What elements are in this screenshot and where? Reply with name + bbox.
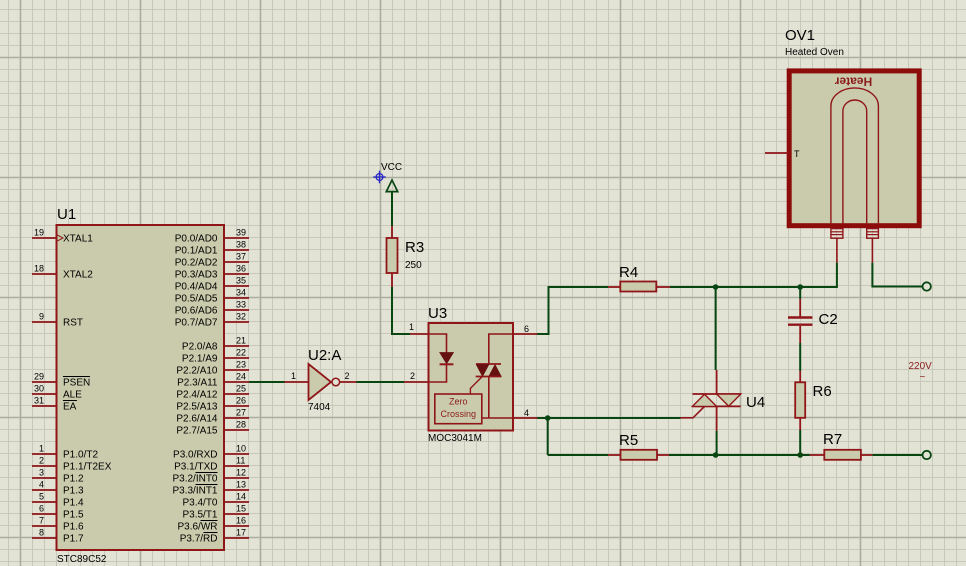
U1 pin 26 P2.5/A13 [176,396,249,413]
svg-text:9: 9 [39,312,44,322]
resistor R3 [387,226,398,287]
U3 pin 6 stub [513,324,537,334]
resistor R5 [608,450,669,460]
svg-text:T: T [794,149,800,159]
svg-text:P1.4: P1.4 [63,498,84,509]
svg-text:P0.6/AD6: P0.6/AD6 [175,306,218,317]
resistor R4 [608,282,670,292]
heater terminal left [831,229,843,263]
junction node gate [545,415,551,421]
svg-text:3: 3 [39,468,44,478]
R4 reference label [619,264,638,281]
svg-text:Heater: Heater [834,75,872,89]
U1 pin 24 P2.3/A11 [177,372,249,389]
svg-text:4: 4 [39,480,44,490]
svg-text:PSEN: PSEN [63,378,90,389]
svg-text:P2.2/A10: P2.2/A10 [176,366,218,377]
U3 reference label [428,305,447,322]
U3 pin 1 stub [409,322,429,334]
svg-text:1: 1 [291,371,296,381]
svg-text:C2: C2 [819,311,838,328]
svg-text:7: 7 [39,516,44,526]
svg-text:EA: EA [63,402,77,413]
svg-text:P3.1/TXD: P3.1/TXD [174,462,217,473]
svg-text:Zero: Zero [449,397,468,407]
svg-text:12: 12 [236,468,246,478]
svg-text:25: 25 [236,384,246,394]
svg-text:4: 4 [524,408,529,418]
junction node C2 top [797,284,803,290]
wire R4 node to U4 [715,287,717,370]
wire U4 to bottom row [716,431,718,455]
svg-text:U3: U3 [428,305,447,322]
svg-text:P3.2/INT0: P3.2/INT0 [172,474,217,485]
OV1 reference label [785,27,815,44]
svg-text:11: 11 [236,456,245,466]
U2:A value label 7404 [308,402,331,413]
U1 pin 12 P3.2/INT0 [172,468,249,485]
U1 pin 32 P0.7/AD7 [175,312,249,329]
U1 pin 17 P3.7/RD [180,528,249,545]
wire R7 to terminal [872,454,922,456]
svg-text:220V: 220V [909,361,933,372]
wire gate node down to R5 row [547,418,549,455]
U1 value label STC89C52 [57,554,107,565]
op-amp/inverter U2:A 7404 [285,364,357,400]
U1 pin 1 P1.0/T2 [32,444,98,461]
R7 reference label [823,431,842,448]
svg-text:39: 39 [236,228,246,238]
U1 pin 38 P0.1/AD1 [175,240,249,257]
svg-text:P0.2/AD2: P0.2/AD2 [175,258,218,269]
U1 pin 2 P1.1/T2EX [32,456,112,473]
svg-text:24: 24 [236,372,246,382]
svg-text:P3.4/T0: P3.4/T0 [182,498,217,509]
U3 value label MOC3041M [428,433,482,444]
heated oven OV1 body [789,71,919,226]
C2 reference label [819,311,838,328]
svg-text:7404: 7404 [308,402,331,413]
svg-text:P0.5/AD5: P0.5/AD5 [175,294,218,305]
U1 pin 28 P2.7/A15 [176,420,249,437]
svg-text:P3.3/INT1: P3.3/INT1 [172,486,217,497]
R5 reference label [619,432,638,449]
capacitor C2 [788,299,812,343]
U1 pin 7 P1.6 [32,516,84,533]
svg-text:RST: RST [63,318,83,329]
wire U3 pin 4 to gate node [537,417,548,419]
U1 pin 22 P2.1/A9 [182,348,249,365]
svg-text:STC89C52: STC89C52 [57,554,107,565]
U1 pin 8 P1.7 [32,528,84,545]
wire U1 P2.3/A11 to U2:A input [249,381,285,383]
resistor R7 [810,450,873,460]
svg-text:36: 36 [236,264,246,274]
svg-text:37: 37 [236,252,246,262]
terminal top right [923,282,931,290]
U1 pin 4 P1.3 [32,480,84,497]
U1 pin 18 XTAL2 [32,264,93,281]
svg-text:ALE: ALE [63,390,82,401]
svg-text:P2.3/A11: P2.3/A11 [177,378,218,389]
R6 reference label [813,383,832,400]
U1 pin 3 P1.2 [32,468,84,485]
svg-text:P2.1/A9: P2.1/A9 [182,354,218,365]
svg-text:P2.4/A12: P2.4/A12 [176,390,218,401]
svg-text:XTAL2: XTAL2 [63,270,93,281]
resistor R6 [795,371,805,430]
svg-text:28: 28 [236,420,246,430]
svg-text:2: 2 [39,456,44,466]
junction node U4 bottom [713,452,719,458]
svg-text:30: 30 [34,384,44,394]
svg-text:R7: R7 [823,431,842,448]
U1 pin 5 P1.4 [32,492,84,509]
U1 reference label [57,206,76,223]
svg-text:26: 26 [236,396,246,406]
svg-text:14: 14 [236,492,246,502]
triac U4 [681,370,741,431]
wire C2 top [799,287,801,299]
svg-text:2: 2 [410,371,415,381]
OV1 value label Heated Oven [785,47,844,58]
svg-text:~: ~ [920,372,926,383]
svg-text:U2:A: U2:A [308,347,341,364]
junction node U4 top [713,284,719,290]
svg-text:P0.3/AD3: P0.3/AD3 [175,270,218,281]
svg-text:Heated Oven: Heated Oven [785,47,844,58]
U1 pin 23 P2.2/A10 [176,360,249,377]
svg-text:31: 31 [34,396,44,406]
svg-text:21: 21 [236,336,246,346]
svg-text:1: 1 [39,444,44,454]
U1 pin 35 P0.4/AD4 [175,276,249,293]
svg-text:XTAL1: XTAL1 [63,234,93,245]
svg-text:P1.0/T2: P1.0/T2 [63,450,98,461]
U2:A reference label [308,347,341,364]
svg-text:P2.5/A13: P2.5/A13 [176,402,218,413]
Heater label (rotated) [834,75,872,89]
svg-text:5: 5 [39,492,44,502]
wire R5 to R7 [669,454,810,456]
svg-text:P1.5: P1.5 [63,510,84,521]
wire C2 to R6 [799,343,801,371]
U1 pin 13 P3.3/INT1 [172,480,249,497]
U2:A pin 2 number [345,371,350,381]
svg-text:13: 13 [236,480,246,490]
U1 pin 31 EA [32,396,77,413]
svg-text:R5: R5 [619,432,638,449]
wire VCC to R3 [391,192,393,226]
optocoupler U3 MOC3041M body [429,323,514,431]
svg-text:250: 250 [405,260,422,271]
U1 pin 21 P2.0/A8 [182,336,249,353]
U3 pin 4 stub [513,408,537,418]
svg-text:1: 1 [409,322,414,332]
power symbol VCC [381,162,402,192]
svg-text:35: 35 [236,276,246,286]
U1 pin 37 P0.2/AD2 [175,252,249,269]
svg-text:27: 27 [236,408,246,418]
svg-text:22: 22 [236,348,246,358]
net label 220V [909,361,933,383]
svg-text:2: 2 [345,371,350,381]
U1 pin 9 RST [32,312,83,329]
U3 internal LED [429,334,454,382]
svg-text:P0.7/AD7: P0.7/AD7 [175,318,218,329]
svg-text:Crossing: Crossing [441,409,477,419]
U1 pin 25 P2.4/A12 [176,384,249,401]
svg-text:38: 38 [236,240,246,250]
U2:A pin 1 number [291,371,296,381]
svg-text:R4: R4 [619,264,638,281]
svg-text:8: 8 [39,528,44,538]
U1 pin 19 XTAL1 [32,228,93,245]
U1 pin 39 P0.0/AD0 [175,228,249,245]
IC U1 STC89C52 body [57,225,225,550]
svg-text:P1.3: P1.3 [63,486,84,497]
wire heater right leg to terminal [872,263,922,287]
svg-text:6: 6 [524,324,529,334]
OV1 pin T [765,149,800,159]
svg-text:15: 15 [236,504,246,514]
svg-text:P2.6/A14: P2.6/A14 [176,414,218,425]
svg-text:P0.4/AD4: P0.4/AD4 [175,282,218,293]
svg-text:23: 23 [236,360,246,370]
svg-text:34: 34 [236,288,246,298]
wire U2:A output to U3 pin 2 [357,381,405,383]
wire R3 to U3 pin 1 [392,287,410,334]
U1 pin 33 P0.6/AD6 [175,300,249,317]
svg-text:VCC: VCC [381,162,402,173]
svg-text:17: 17 [236,528,246,538]
U1 pin 6 P1.5 [32,504,84,521]
U4 reference label [746,394,765,411]
junction node R6 bottom [797,452,803,458]
U3 pin 2 stub [404,371,429,382]
svg-text:P0.1/AD1: P0.1/AD1 [175,246,218,257]
U3 zero crossing block [435,394,482,424]
svg-text:P1.2: P1.2 [63,474,84,485]
U1 pin 11 P3.1/TXD [174,456,249,473]
R3 reference label [405,239,424,256]
svg-text:P3.5/T1: P3.5/T1 [182,510,217,521]
svg-text:32: 32 [236,312,246,322]
R3 value label 250 [405,260,422,271]
svg-text:33: 33 [236,300,246,310]
wire U3 pin 6 to R4 [537,287,608,334]
svg-text:P3.7/RD: P3.7/RD [180,534,218,545]
svg-text:R3: R3 [405,239,424,256]
svg-text:P0.0/AD0: P0.0/AD0 [175,234,218,245]
wire R4 to heater node [670,263,837,287]
U1 pin 16 P3.6/WR [177,516,249,533]
wire to R5 [548,454,608,456]
wire gate node to U4 gate [548,417,681,419]
svg-text:U4: U4 [746,394,765,411]
terminal bottom right [923,451,931,459]
svg-text:P2.7/A15: P2.7/A15 [176,426,218,437]
svg-text:6: 6 [39,504,44,514]
svg-text:P1.1/T2EX: P1.1/T2EX [63,462,112,473]
heater terminal right [867,229,879,263]
U1 pin 36 P0.3/AD3 [175,264,249,281]
U1 pin 15 P3.5/T1 [182,504,249,521]
U1 pin 10 P3.0/RXD [173,444,249,461]
svg-text:P3.0/RXD: P3.0/RXD [173,450,217,461]
svg-text:P1.6: P1.6 [63,522,84,533]
svg-text:OV1: OV1 [785,27,815,44]
svg-text:10: 10 [236,444,246,454]
U1 pin 29 PSEN [32,372,90,389]
svg-text:18: 18 [34,264,44,274]
U3 internal triac [470,334,513,418]
svg-text:29: 29 [34,372,44,382]
svg-text:U1: U1 [57,206,76,223]
svg-text:MOC3041M: MOC3041M [428,433,482,444]
U1 pin 14 P3.4/T0 [182,492,249,509]
svg-text:19: 19 [34,228,44,238]
U1 pin 30 ALE [32,384,82,401]
wire R6 to bottom row [799,430,801,455]
U1 pin 27 P2.6/A14 [176,408,249,425]
U1 pin 34 P0.5/AD5 [175,288,249,305]
svg-text:P3.6/WR: P3.6/WR [177,522,217,533]
svg-text:P1.7: P1.7 [63,534,84,545]
svg-text:R6: R6 [813,383,832,400]
heater element tube [831,88,879,224]
svg-text:P2.0/A8: P2.0/A8 [182,342,218,353]
origin marker (blue) [373,171,386,184]
svg-text:16: 16 [236,516,246,526]
